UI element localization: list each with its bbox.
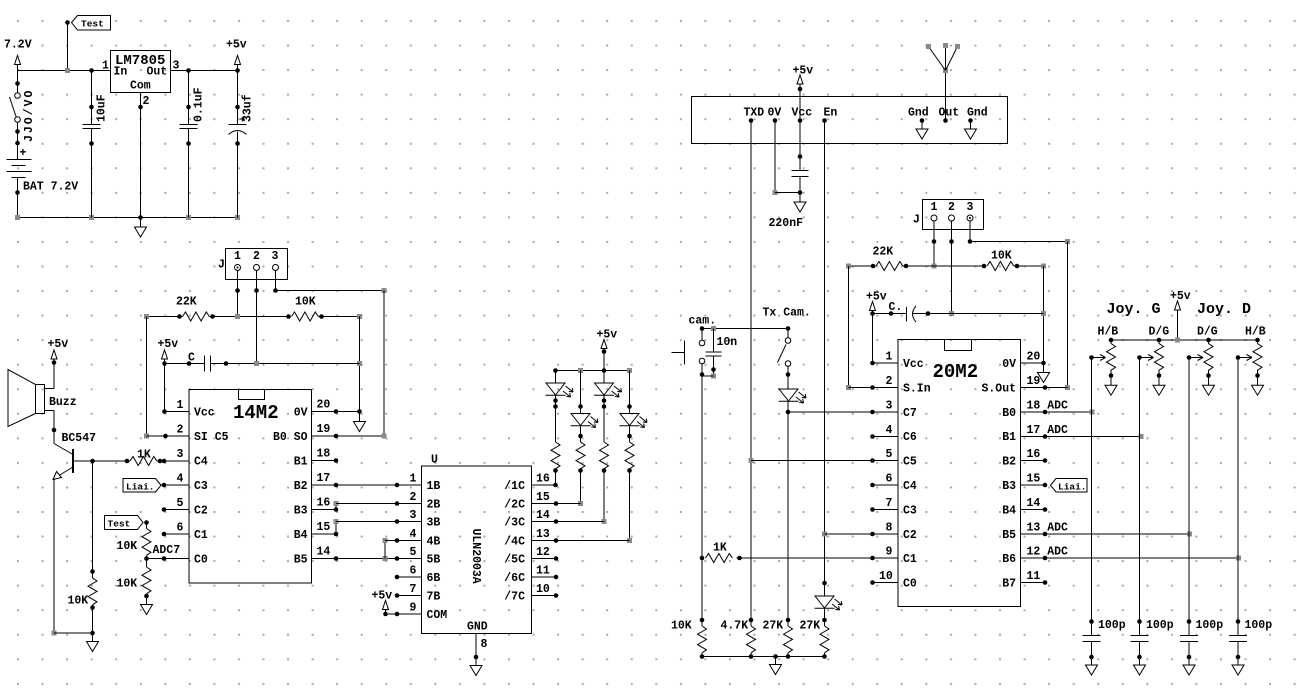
power arrow +5v (buzzer) bbox=[51, 350, 57, 389]
svg-text:GND: GND bbox=[467, 621, 488, 634]
potentiometer D/G D bbox=[1187, 340, 1215, 395]
svg-text:1: 1 bbox=[410, 473, 417, 486]
svg-text:+5v: +5v bbox=[1170, 290, 1191, 303]
svg-text:100p: 100p bbox=[1098, 619, 1126, 632]
capacitor 100p (1) bbox=[1083, 619, 1126, 675]
svg-text:H/B: H/B bbox=[1245, 326, 1266, 339]
TX module box bbox=[692, 97, 1008, 144]
capacitor C. (20M2) bbox=[873, 301, 1044, 322]
svg-text:20: 20 bbox=[317, 399, 331, 412]
svg-text:5: 5 bbox=[177, 497, 184, 510]
junction grey 22K rail / pin1 bbox=[235, 314, 240, 319]
svg-text:18 ADC: 18 ADC bbox=[1027, 400, 1069, 413]
svg-text:12 ADC: 12 ADC bbox=[1027, 546, 1069, 559]
svg-text:C6: C6 bbox=[903, 431, 917, 444]
svg-text:14: 14 bbox=[536, 509, 550, 522]
wire / resistor chain 2 bbox=[576, 426, 585, 506]
pin numbers 20M2 right bbox=[1027, 351, 1069, 584]
wire jumper pin1 down bbox=[932, 221, 937, 269]
pin numbers 14M2 right bbox=[317, 399, 331, 559]
wire Test to rail bbox=[67, 23, 69, 71]
svg-text:Joy. D: Joy. D bbox=[1197, 301, 1251, 318]
svg-text:2B: 2B bbox=[427, 499, 441, 512]
wire / resistor chain 4 bbox=[625, 426, 634, 543]
capacitor 100p (3) bbox=[1180, 619, 1223, 675]
regulator LM7805 bbox=[111, 51, 171, 93]
svg-text:C4: C4 bbox=[903, 480, 917, 493]
svg-text:8: 8 bbox=[886, 522, 893, 535]
svg-text:4: 4 bbox=[177, 473, 184, 486]
potentiometer D/G G bbox=[1137, 340, 1165, 395]
svg-text:4B: 4B bbox=[427, 536, 441, 549]
svg-text:2: 2 bbox=[886, 375, 893, 388]
svg-text:Gnd: Gnd bbox=[967, 107, 988, 120]
wire base node bbox=[74, 459, 130, 464]
pin12 B6 wire to joystick bbox=[1021, 556, 1242, 561]
capacitor 10uF bbox=[83, 71, 109, 218]
wire pin17 B2 to ULN 1B bbox=[312, 483, 422, 488]
ground (PSU) bbox=[135, 215, 147, 237]
pin numbers 20M2 left bbox=[879, 351, 893, 584]
svg-text:C0: C0 bbox=[903, 578, 917, 591]
svg-text:20M2: 20M2 bbox=[933, 361, 979, 383]
svg-text:10K: 10K bbox=[671, 620, 692, 633]
svg-text:7.2V: 7.2V bbox=[4, 39, 32, 52]
power arrow 7.2V bbox=[15, 56, 21, 71]
pin11 B7 stub bbox=[1021, 580, 1048, 585]
wire COM row bbox=[383, 612, 421, 617]
svg-text:4: 4 bbox=[410, 528, 417, 541]
wire chain3 to /3C bbox=[532, 519, 605, 524]
buzzer Buzz (speaker) bbox=[8, 370, 54, 427]
wire LED supply rail bbox=[553, 368, 632, 373]
resistor 10K (Test pullup) bbox=[117, 523, 152, 559]
svg-text:+: + bbox=[20, 147, 27, 160]
svg-text:2: 2 bbox=[410, 491, 417, 504]
svg-text:Buzz: Buzz bbox=[49, 396, 77, 409]
pin6 stub C1 bbox=[162, 532, 189, 537]
wire pin15 B4 to ULN 3B bbox=[312, 519, 422, 536]
wire left rail down to SI bbox=[144, 317, 189, 439]
svg-text:3: 3 bbox=[177, 448, 184, 461]
wire TXD to C5 bbox=[751, 460, 898, 462]
svg-text:B4: B4 bbox=[1002, 505, 1016, 518]
svg-text:11: 11 bbox=[536, 565, 550, 578]
svg-text:/1C: /1C bbox=[504, 480, 525, 493]
svg-text:7B: 7B bbox=[427, 591, 441, 604]
svg-text:15: 15 bbox=[1027, 473, 1041, 486]
svg-text:Liai.: Liai. bbox=[126, 482, 155, 493]
svg-text:220nF: 220nF bbox=[769, 217, 804, 230]
svg-text:SI C5: SI C5 bbox=[194, 431, 229, 444]
svg-text:0V: 0V bbox=[1002, 358, 1016, 371]
capacitor 33uf (electrolytic) bbox=[229, 71, 255, 218]
LED D1 bbox=[546, 371, 574, 398]
wire joystick supply rail bbox=[1109, 338, 1260, 343]
resistor 1K (base) bbox=[130, 449, 189, 466]
svg-text:B6: B6 bbox=[1002, 553, 1016, 566]
svg-text:6: 6 bbox=[410, 565, 417, 578]
svg-text:10: 10 bbox=[879, 570, 893, 583]
IC U ULN2003A bbox=[422, 454, 532, 634]
svg-text:/4C: /4C bbox=[504, 536, 525, 549]
pin4 C6 stub bbox=[870, 434, 898, 439]
wire bottom ground rail bbox=[18, 217, 238, 219]
TX module pin labels bbox=[744, 107, 988, 120]
svg-text:22K: 22K bbox=[873, 246, 894, 259]
wire branch B5 to ULN 4B bbox=[383, 538, 422, 559]
svg-text:33uf: 33uf bbox=[242, 94, 255, 122]
svg-text:5B: 5B bbox=[427, 554, 441, 567]
pin18 B0 wire to joystick bbox=[1021, 410, 1095, 415]
svg-text:3B: 3B bbox=[427, 517, 441, 530]
wire bottom ground rail (cam) bbox=[700, 654, 827, 659]
svg-text:15: 15 bbox=[536, 491, 550, 504]
wire cam bottom down bbox=[700, 364, 705, 620]
svg-text:2: 2 bbox=[253, 250, 260, 263]
wire base vertical bbox=[90, 461, 95, 578]
pin numbers 14M2 left bbox=[153, 399, 184, 557]
svg-text:B3: B3 bbox=[294, 505, 308, 518]
pin 8 GND bbox=[474, 634, 488, 666]
svg-text:S.In: S.In bbox=[903, 383, 931, 396]
svg-text:1: 1 bbox=[177, 399, 184, 412]
wire En down bbox=[822, 121, 827, 586]
ground (20M2 0V) bbox=[1038, 373, 1050, 383]
svg-text:13: 13 bbox=[536, 528, 550, 541]
svg-text:B5: B5 bbox=[294, 554, 308, 567]
svg-text:7: 7 bbox=[886, 497, 893, 510]
svg-text:ULN2003A: ULN2003A bbox=[469, 529, 482, 584]
ground (cam rail) bbox=[770, 657, 782, 675]
svg-text:Vcc: Vcc bbox=[903, 358, 924, 371]
svg-text:B2: B2 bbox=[294, 480, 308, 493]
pin18 stub bbox=[312, 458, 339, 463]
junction grey left rail bbox=[144, 314, 149, 319]
capacitor C bbox=[165, 352, 360, 372]
svg-text:Vcc: Vcc bbox=[792, 107, 813, 120]
LED (En) bbox=[815, 583, 843, 622]
power arrow +5v bbox=[235, 56, 241, 71]
svg-text:C3: C3 bbox=[194, 480, 208, 493]
antenna bbox=[926, 43, 960, 121]
svg-text:6: 6 bbox=[177, 522, 184, 535]
svg-text:In: In bbox=[114, 66, 128, 79]
svg-text:17: 17 bbox=[317, 472, 331, 485]
TX module pin dots bbox=[749, 118, 973, 123]
resistor 22K (right) bbox=[846, 246, 984, 271]
svg-text:19: 19 bbox=[1027, 375, 1041, 388]
svg-text:16: 16 bbox=[317, 497, 331, 510]
svg-text:100p: 100p bbox=[1146, 619, 1174, 632]
svg-text:4: 4 bbox=[886, 424, 893, 437]
svg-text:C1: C1 bbox=[194, 529, 208, 542]
svg-text:11: 11 bbox=[1027, 570, 1041, 583]
pin7 C3 stub bbox=[870, 507, 898, 512]
LED D2 bbox=[571, 371, 599, 428]
wire chain4 to /4C bbox=[532, 538, 630, 543]
resistor 4.7K (TXD pulldown) bbox=[721, 618, 756, 657]
power arrow +5v (joysticks) bbox=[1175, 301, 1181, 340]
svg-text:10K: 10K bbox=[117, 540, 138, 553]
junction grey rail/Test bbox=[65, 68, 70, 73]
svg-text:H/B: H/B bbox=[1098, 326, 1119, 339]
svg-text:1K: 1K bbox=[137, 449, 151, 462]
svg-text:Test: Test bbox=[108, 519, 131, 530]
wire TXD down bbox=[749, 121, 754, 621]
pin 7B stub bbox=[395, 593, 422, 598]
wire +5v down to Vcc bbox=[162, 361, 189, 414]
pin13 B5 wire to joystick bbox=[1021, 532, 1193, 537]
svg-text:C0: C0 bbox=[194, 554, 208, 567]
wire right vertical to 0V/ground bbox=[1041, 266, 1046, 373]
svg-text:C4: C4 bbox=[194, 456, 208, 469]
svg-text:3: 3 bbox=[272, 250, 279, 263]
svg-text:B1: B1 bbox=[294, 456, 308, 469]
wire emitter down bbox=[52, 479, 95, 636]
wire wiper2 down bbox=[1139, 358, 1141, 622]
wire wiper1 down bbox=[1091, 358, 1093, 622]
svg-text:B5: B5 bbox=[1002, 529, 1016, 542]
svg-text:10K: 10K bbox=[991, 250, 1012, 263]
wire buzzer to collector bbox=[52, 411, 57, 444]
svg-text:2: 2 bbox=[948, 201, 955, 214]
svg-text:1B: 1B bbox=[427, 480, 441, 493]
svg-text:0V: 0V bbox=[294, 407, 308, 420]
resistor 27K (En LED) bbox=[800, 620, 830, 657]
svg-text:+5v: +5v bbox=[48, 338, 69, 351]
ground (220nF) bbox=[794, 193, 806, 213]
svg-text:5: 5 bbox=[410, 546, 417, 559]
svg-text:3: 3 bbox=[967, 201, 974, 214]
pin1 Vcc stub bbox=[873, 362, 899, 364]
svg-text:1: 1 bbox=[886, 351, 893, 364]
flag Liai. (14M2) bbox=[123, 479, 189, 493]
svg-text:B1: B1 bbox=[1002, 431, 1016, 444]
switch Tx Cam bbox=[778, 326, 791, 366]
svg-text:3: 3 bbox=[410, 509, 417, 522]
svg-text:0V: 0V bbox=[768, 107, 782, 120]
resistor 10K (right) bbox=[982, 250, 1046, 271]
svg-text:27K: 27K bbox=[800, 620, 821, 633]
svg-text:+5v: +5v bbox=[793, 65, 814, 78]
svg-text:8: 8 bbox=[481, 638, 488, 651]
svg-text:Liai.: Liai. bbox=[1058, 482, 1087, 493]
svg-text:+5v: +5v bbox=[597, 329, 618, 342]
svg-text:10K: 10K bbox=[295, 296, 316, 309]
capacitor 0.1uF bbox=[180, 71, 206, 218]
svg-text:9: 9 bbox=[886, 546, 893, 559]
ground (Gnd pin right) bbox=[965, 121, 977, 140]
svg-text:+5v: +5v bbox=[372, 590, 393, 603]
pin 6B stub bbox=[395, 575, 422, 580]
capacitor 10n bbox=[702, 326, 737, 379]
pin15 B3 stub + flag Liai. bbox=[1021, 479, 1088, 493]
svg-text:19: 19 bbox=[317, 423, 331, 436]
svg-text:J: J bbox=[913, 214, 920, 227]
svg-text:4.7K: 4.7K bbox=[721, 620, 749, 633]
wire En to C2 bbox=[825, 533, 873, 535]
svg-text:Gnd: Gnd bbox=[908, 107, 929, 120]
flag Test (top) bbox=[72, 16, 111, 31]
wire wiper4 down bbox=[1237, 358, 1239, 622]
pin19 S.Out wire bbox=[1021, 385, 1068, 390]
power arrow +5v (COM) bbox=[383, 601, 389, 615]
wire switch to battery bbox=[15, 122, 20, 159]
jumper header J (right) bbox=[923, 200, 984, 230]
wire 0V to cap bottom bbox=[773, 121, 801, 196]
pin6 C4 stub bbox=[870, 483, 898, 488]
svg-text:12: 12 bbox=[536, 546, 550, 559]
ground (14M2 0V) bbox=[354, 422, 366, 432]
capacitor 100p (2) bbox=[1131, 619, 1174, 675]
ground (emitter) bbox=[87, 633, 99, 652]
svg-text:C2: C2 bbox=[194, 505, 208, 518]
pin17 B1 wire to joystick bbox=[1021, 434, 1144, 439]
power arrow +5v (LEDs) bbox=[601, 340, 607, 371]
svg-text:10uF: 10uF bbox=[96, 94, 109, 122]
svg-text:/6C: /6C bbox=[504, 572, 525, 585]
wire battery to ground rail bbox=[15, 178, 20, 218]
svg-text:BC547: BC547 bbox=[62, 432, 97, 445]
svg-text:14: 14 bbox=[317, 546, 331, 559]
svg-text:100p: 100p bbox=[1245, 619, 1273, 632]
svg-text:13 ADC: 13 ADC bbox=[1027, 522, 1069, 535]
svg-text:Vcc: Vcc bbox=[194, 407, 215, 420]
svg-text:cam.: cam. bbox=[689, 315, 717, 328]
power arrow +5v (14M2) bbox=[162, 350, 168, 364]
pin5 stub C2 bbox=[162, 507, 189, 512]
svg-text:Tx Cam.: Tx Cam. bbox=[763, 307, 811, 320]
pin20 0V stub bbox=[1021, 362, 1044, 364]
svg-text:1: 1 bbox=[102, 60, 109, 73]
pin /6C stub bbox=[532, 575, 559, 580]
ground (Gnd pin left) bbox=[916, 121, 928, 140]
wire left rail down to S.In bbox=[846, 266, 898, 390]
svg-text:0.1uF: 0.1uF bbox=[193, 87, 206, 122]
svg-text:100p: 100p bbox=[1196, 619, 1224, 632]
svg-text:/3C: /3C bbox=[504, 517, 525, 530]
svg-text:6: 6 bbox=[886, 473, 893, 486]
resistor 27K (C7 pulldown) bbox=[763, 618, 793, 657]
svg-text:Com: Com bbox=[130, 80, 151, 93]
svg-text:1: 1 bbox=[931, 201, 938, 214]
pin8 C2 stub dot bbox=[870, 532, 898, 537]
resistor 1K (cam to C1) bbox=[706, 542, 899, 563]
svg-text:5: 5 bbox=[886, 448, 893, 461]
svg-text:27K: 27K bbox=[763, 620, 784, 633]
svg-text:+5v: +5v bbox=[866, 291, 887, 304]
svg-text:Test: Test bbox=[81, 19, 104, 30]
svg-text:16: 16 bbox=[1027, 448, 1041, 461]
svg-text:17 ADC: 17 ADC bbox=[1027, 424, 1069, 437]
flag Test (14M2) bbox=[105, 516, 149, 530]
svg-text:B7: B7 bbox=[1002, 578, 1016, 591]
power arrow +5v (Vcc TX) bbox=[797, 75, 803, 121]
svg-text:C7: C7 bbox=[903, 407, 917, 420]
resistor 10K (cam pulldown) bbox=[671, 618, 707, 657]
svg-text:3: 3 bbox=[886, 400, 893, 413]
svg-text:Joy. G: Joy. G bbox=[1107, 301, 1161, 318]
svg-text:7: 7 bbox=[410, 583, 417, 596]
wire wiper3 down bbox=[1188, 358, 1190, 622]
wire chain1 to /1C bbox=[532, 483, 558, 488]
push button cam bbox=[672, 326, 705, 364]
svg-text:C5: C5 bbox=[903, 456, 917, 469]
LED D4 bbox=[620, 371, 648, 428]
svg-text:14: 14 bbox=[1027, 497, 1041, 510]
wire / resistor chain 3 bbox=[600, 395, 609, 524]
resistor 10K (base to ground) bbox=[68, 578, 98, 633]
pin5 C5 stub dot bbox=[870, 458, 875, 463]
node dot rail/10uF bbox=[89, 68, 94, 73]
svg-text:D/G: D/G bbox=[1197, 326, 1218, 339]
svg-text:10K: 10K bbox=[117, 578, 138, 591]
wire input rail bbox=[18, 70, 111, 72]
pin numbers ULN left bbox=[410, 473, 417, 615]
pin /5C stub bbox=[532, 556, 559, 561]
svg-text:6B: 6B bbox=[427, 572, 441, 585]
resistor 10K bbox=[286, 296, 362, 322]
resistor 10K (ADC7 to ground) bbox=[117, 559, 152, 605]
wire pin20 0V to ground vertical bbox=[312, 409, 360, 414]
wire rail to switch bbox=[17, 71, 19, 93]
svg-text:C3: C3 bbox=[903, 505, 917, 518]
wire pin14 B5 to ULN 5B bbox=[312, 556, 422, 561]
wire pin19 B0 SO to jumper pin3 bbox=[312, 434, 387, 439]
jumper header J (left) bbox=[226, 249, 288, 280]
ground (ULN pin8) bbox=[470, 666, 482, 676]
ground (ADC7) bbox=[141, 605, 153, 615]
svg-text:/7C: /7C bbox=[504, 591, 525, 604]
svg-text:10n: 10n bbox=[717, 336, 738, 349]
wire Com pin 2 to ground rail bbox=[138, 93, 143, 218]
svg-text:10K: 10K bbox=[68, 595, 89, 608]
svg-text:B0: B0 bbox=[1002, 407, 1016, 420]
svg-text:ADC7: ADC7 bbox=[153, 544, 181, 557]
svg-text:B0 SO: B0 SO bbox=[273, 431, 308, 444]
pin14 B4 stub bbox=[1021, 507, 1048, 512]
potentiometer H/B D bbox=[1236, 340, 1264, 395]
svg-text:/5C: /5C bbox=[504, 554, 525, 567]
svg-text:Out: Out bbox=[939, 107, 960, 120]
pin9 C1 stub dot bbox=[870, 556, 875, 561]
wire jumper pin3 to right vertical bbox=[273, 271, 386, 437]
battery BAT 7.2V bbox=[7, 147, 32, 178]
svg-text:B2: B2 bbox=[1002, 456, 1016, 469]
svg-text:15: 15 bbox=[317, 521, 331, 534]
svg-text:2: 2 bbox=[177, 424, 184, 437]
svg-text:22K: 22K bbox=[176, 296, 197, 309]
pin16 B2 stub bbox=[1021, 458, 1048, 463]
wire LED to C7 row / 27K bbox=[786, 410, 791, 620]
svg-text:B3: B3 bbox=[1002, 480, 1016, 493]
wire / resistor chain 1 bbox=[551, 395, 560, 485]
capacitor 100p (4) bbox=[1229, 619, 1272, 675]
transistor Q1 BC547 bbox=[53, 444, 73, 480]
svg-text:JJO/VO: JJO/VO bbox=[23, 89, 36, 142]
svg-text:C1: C1 bbox=[903, 553, 917, 566]
svg-text:C2: C2 bbox=[903, 529, 917, 542]
pin10 C0 stub bbox=[870, 580, 898, 585]
svg-text:J: J bbox=[218, 259, 225, 272]
wire jumper pin1 down bbox=[237, 271, 239, 317]
svg-text:+5v: +5v bbox=[158, 338, 179, 351]
svg-text:BAT 7.2V: BAT 7.2V bbox=[23, 181, 78, 194]
IC 14M2 bbox=[189, 390, 312, 584]
svg-text:2: 2 bbox=[143, 95, 150, 108]
pin numbers ULN right bbox=[536, 473, 550, 597]
